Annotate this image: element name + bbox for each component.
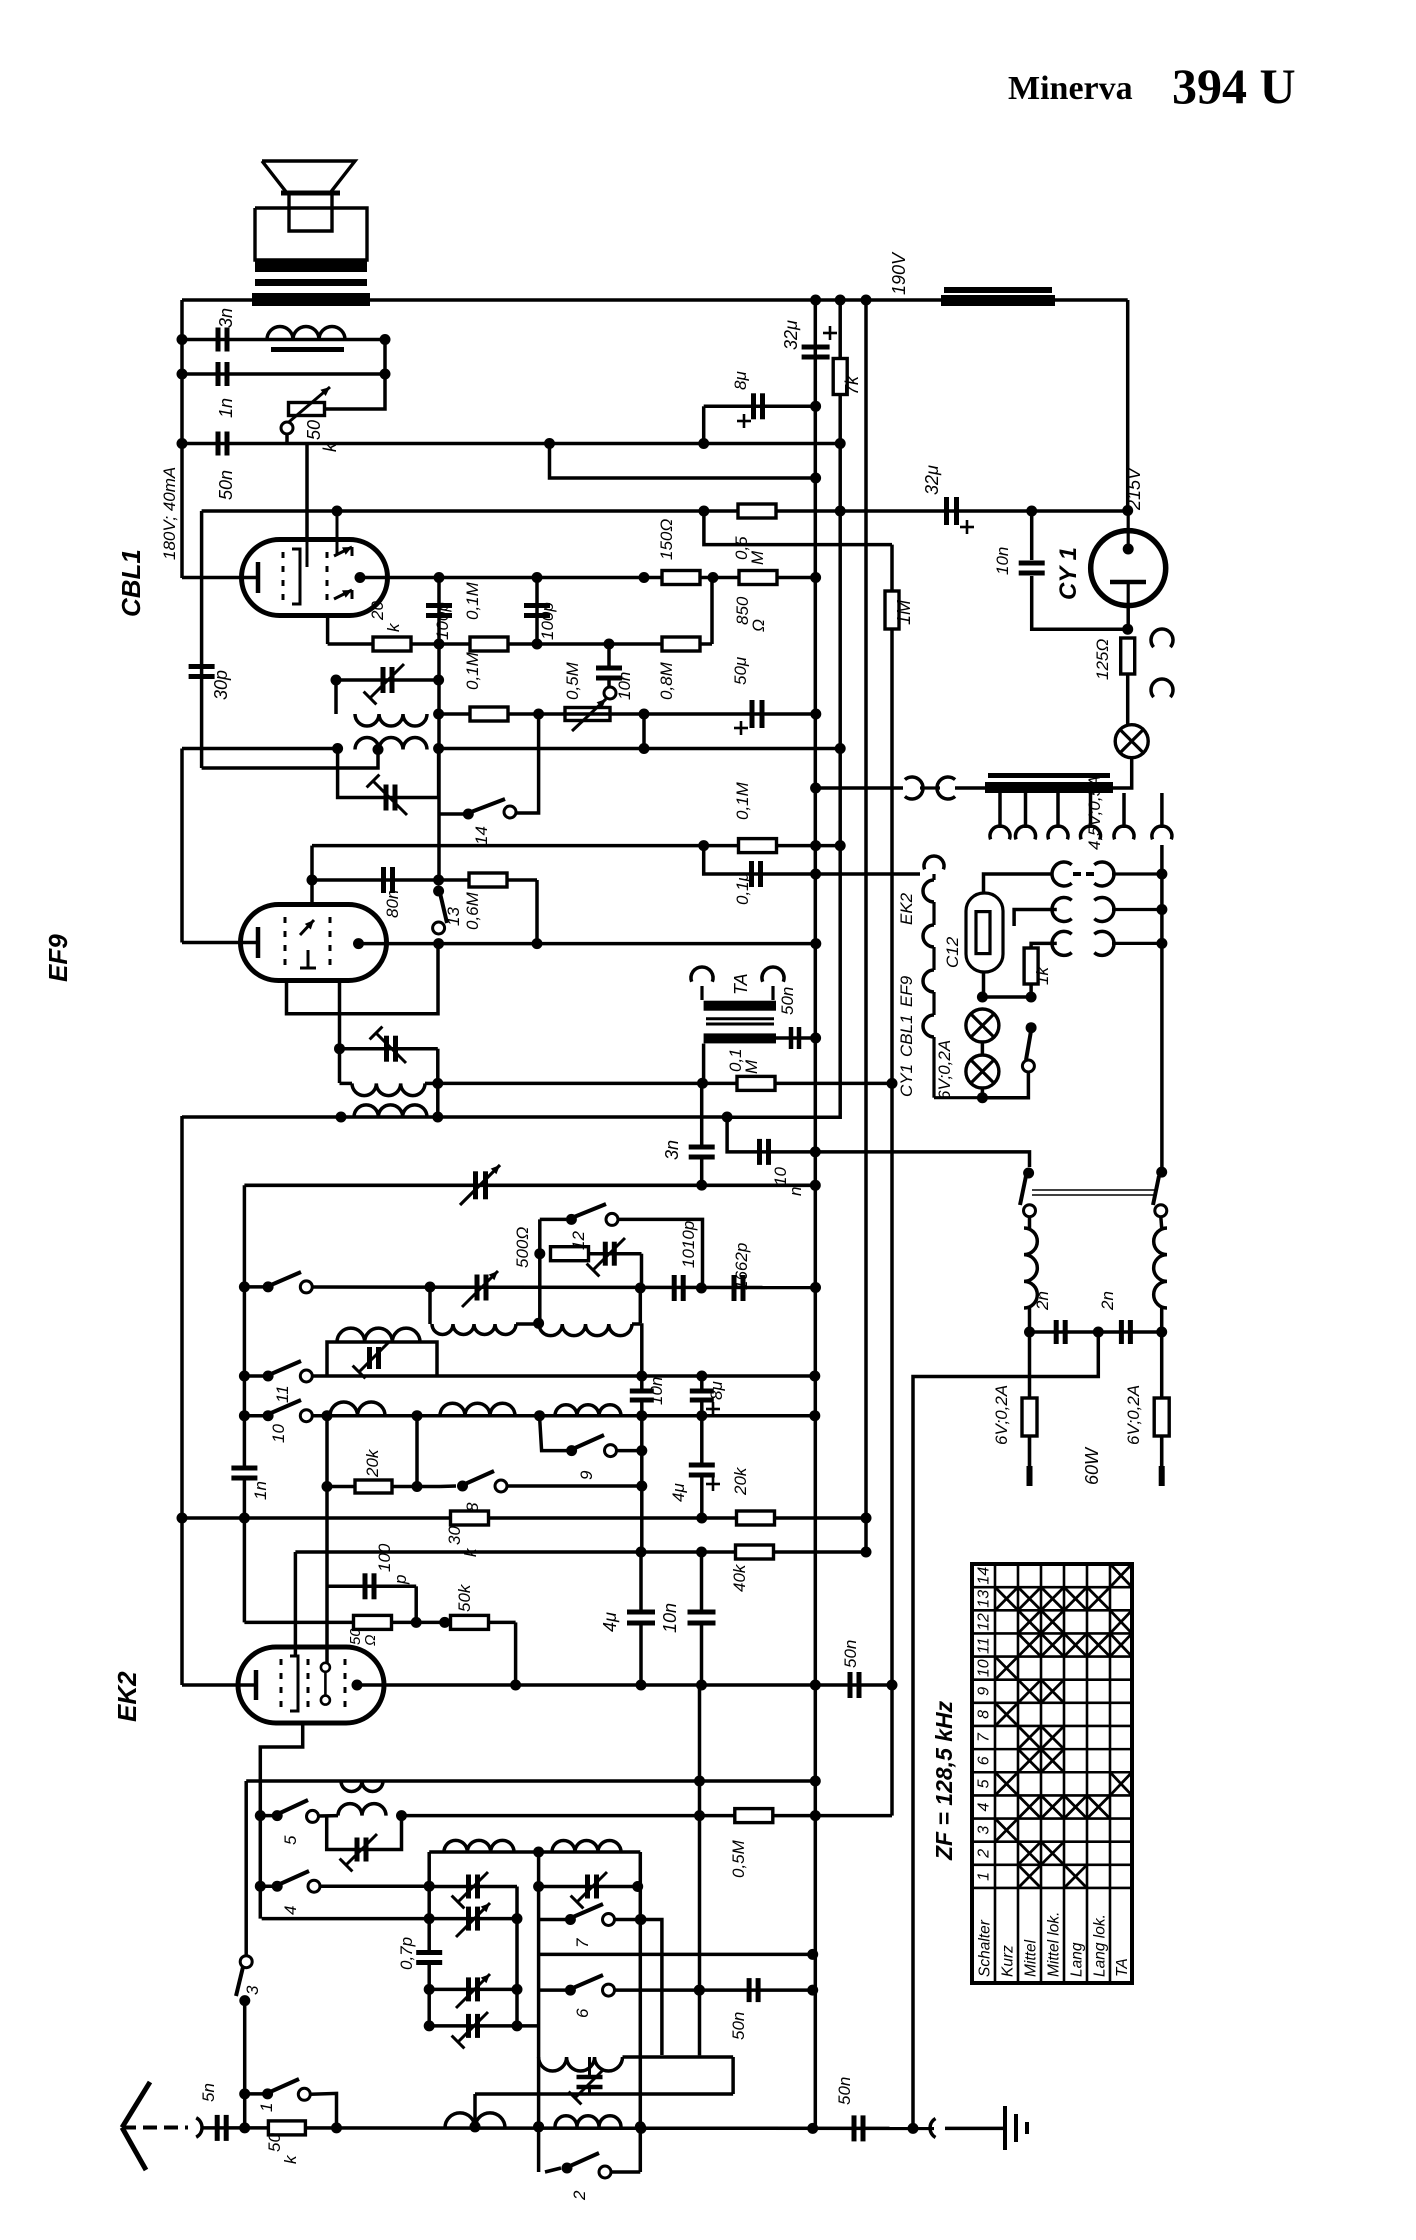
svg-text:215V: 215V: [1124, 466, 1144, 511]
wire C12 grid stub: [1014, 910, 1057, 927]
wire coil D right: [623, 2055, 734, 2059]
svg-text:0,1M: 0,1M: [733, 781, 752, 820]
inductor band coil C: [552, 1841, 621, 1852]
wire bank col 517: [515, 1887, 519, 2026]
svg-text:20k: 20k: [363, 1448, 382, 1478]
wire 3n drop: [700, 1083, 704, 1147]
wire 20k row: [328, 642, 712, 646]
wire 40k row: [295, 1550, 866, 1554]
wire EF9 bottom pin a: [287, 944, 439, 1014]
svg-text:CBL1: CBL1: [897, 1014, 916, 1057]
tube EK2 anode dot: [352, 1680, 363, 1691]
svg-text:1662p: 1662p: [732, 1243, 751, 1290]
tube EK2 interior cathode: [254, 1670, 259, 1700]
resistor 850Ohm: [739, 571, 777, 585]
IF transformer IFT2 primary box: [336, 680, 439, 714]
inductor dropper right: [1159, 1217, 1163, 1228]
svg-text:100p: 100p: [538, 602, 557, 640]
trimmer capacitor T4: [466, 2014, 471, 2038]
capacitor 5n: [215, 2115, 220, 2141]
fuse 6V 0,2A right: [1160, 1332, 1164, 1399]
wire EK2 bottom pin: [260, 1722, 302, 1919]
wire 30p riser: [200, 511, 204, 768]
svg-text:60W: 60W: [1082, 1446, 1102, 1485]
svg-text:1010p: 1010p: [679, 1221, 698, 1268]
svg-text:7: 7: [573, 1938, 592, 1948]
wire bus x840: [727, 300, 840, 1117]
svg-text:EF9: EF9: [43, 934, 73, 982]
svg-text:10: 10: [269, 1424, 288, 1443]
svg-text:1k: 1k: [1033, 966, 1052, 985]
connector hook a: [1151, 629, 1173, 647]
inductor antenna coupling coil: [341, 1781, 383, 1792]
svg-text:2n: 2n: [1098, 1291, 1117, 1311]
inductor IFT2 secondary coil: [355, 738, 427, 750]
wire lamps series: [981, 1042, 985, 1055]
wire rectifier feed row 511: [840, 509, 1127, 513]
wire x246 col: [244, 1781, 248, 1955]
svg-text:10n: 10n: [660, 1603, 680, 1633]
connector dashed plug pair: [1052, 862, 1072, 886]
svg-text:32μ: 32μ: [922, 465, 942, 495]
wire bank row 1852: [429, 1850, 640, 1854]
capacitor 100p b: [524, 603, 550, 608]
tube EK2 interior grids: [280, 1659, 283, 1665]
svg-text:150Ω: 150Ω: [657, 519, 676, 560]
transformer TA secondary: [704, 1033, 776, 1043]
svg-text:4: 4: [976, 1802, 993, 1811]
capacitor 10n rectifier: [1019, 561, 1045, 566]
wire heater feed row: [816, 872, 920, 876]
capacitor 32u second: [944, 497, 949, 525]
svg-text:10n: 10n: [993, 547, 1012, 575]
wire EK2 anode row: [357, 1683, 892, 1687]
connector hook pair mid: [1052, 898, 1072, 922]
svg-text:5n: 5n: [199, 2083, 218, 2102]
resistor 0,5M fixed: [738, 504, 776, 518]
capacitor 4u main: [627, 1610, 655, 1615]
trimmer capacitor T3: [466, 1977, 471, 2001]
capacitor 0,1u: [749, 861, 754, 887]
resistor 0,8M: [662, 637, 700, 651]
tube EF9 interior cathode: [256, 927, 261, 958]
svg-text:6V;0,2A: 6V;0,2A: [992, 1385, 1011, 1445]
capacitor 1662p: [732, 1275, 737, 1301]
wire bus AVC x892: [890, 545, 894, 1816]
antenna hook: [196, 2118, 202, 2137]
svg-text:20k: 20k: [731, 1466, 750, 1496]
svg-text:11: 11: [273, 1385, 292, 1403]
capacitor 50n TA: [789, 1027, 794, 1049]
svg-text:3: 3: [976, 1826, 993, 1835]
transformer TA primary: [704, 1001, 776, 1011]
resistor 150Ohm: [662, 571, 700, 585]
wire switch14 left: [439, 812, 469, 816]
tube CBL1: [242, 540, 388, 616]
switch 9: [540, 1416, 572, 1451]
output transformer T-out secondary winding: [255, 260, 367, 272]
wire 30k row: [182, 1516, 866, 1520]
wire bank col 538: [537, 1852, 541, 2128]
svg-text:8μ: 8μ: [707, 1381, 726, 1400]
IF transformer IFT2 secondary box: [338, 749, 439, 798]
switch scale lamps: [1026, 1022, 1037, 1033]
wire heater row to bank: [815, 1152, 1029, 1167]
svg-text:50n: 50n: [729, 2012, 748, 2040]
capacitor 50n bottom: [852, 2115, 857, 2141]
wire 1k top: [1031, 943, 1057, 948]
resistor 500Ohm: [551, 1247, 589, 1261]
trimmer capacitor osc fb: [603, 1242, 608, 1266]
svg-text:CY1: CY1: [897, 1064, 916, 1097]
svg-text:10: 10: [771, 1167, 790, 1186]
trimmer capacitor T5: [577, 2075, 603, 2080]
svg-text:Kurz: Kurz: [1000, 1945, 1017, 1977]
capacitor 10n osc: [630, 1389, 654, 1394]
wire 10n to wiper: [607, 678, 611, 687]
wire CBL1 bottom pin: [326, 616, 330, 645]
trimmer capacitor T2: [466, 1907, 471, 1931]
switch 1: [262, 2088, 273, 2099]
svg-text:Minerva: Minerva: [1008, 70, 1133, 107]
wire top bus 190V: [182, 298, 1128, 302]
wire TA primary lead: [702, 1044, 706, 1084]
inductor IFT1 primary coil: [352, 1083, 425, 1095]
tube CBL1 interior cathode: [256, 562, 261, 593]
wire CBL1 grid line 0,5M row: [202, 509, 841, 513]
wire switch1 right: [310, 2093, 336, 2128]
svg-text:50n: 50n: [778, 987, 797, 1015]
switch 11: [239, 1371, 250, 1382]
wire osc row 1288: [313, 1285, 816, 1289]
inductor band coil 5: [338, 1804, 386, 1816]
table X marks: [1111, 1565, 1131, 1586]
capacitor 50n b: [747, 1978, 752, 2002]
resistor 50k osc: [451, 1615, 489, 1629]
inductor IFT2 primary coil: [355, 714, 427, 726]
wire coil C right side: [639, 1852, 643, 1887]
wire col 475: [473, 2094, 477, 2127]
svg-text:500Ω: 500Ω: [513, 1227, 532, 1268]
svg-text:0,5M: 0,5M: [729, 1839, 748, 1878]
tube CBL1 cathode wire: [182, 576, 258, 580]
wire row10 line: [313, 1414, 815, 1418]
tube EF9: [241, 905, 387, 981]
tube EK2 grid terminals: [321, 1663, 330, 1672]
wire pot feed: [324, 340, 385, 410]
capacitor 4u second: [689, 1463, 715, 1468]
wire CY1 cathode down: [1126, 606, 1130, 630]
svg-text:M: M: [748, 550, 767, 565]
wire antenna coil row 1781: [246, 1779, 815, 1783]
pickup jack TA: [691, 967, 713, 982]
wire to ground: [945, 2127, 1003, 2131]
svg-text:12: 12: [569, 1231, 588, 1250]
resistor 7k: [833, 359, 847, 395]
connector hook pair low: [1052, 931, 1072, 955]
capacitor 2n b: [1119, 1320, 1124, 1344]
svg-text:7: 7: [976, 1732, 993, 1742]
svg-text:6: 6: [976, 1756, 993, 1765]
switch 8: [457, 1481, 468, 1492]
svg-text:p: p: [391, 1575, 410, 1585]
svg-text:2n: 2n: [1033, 1291, 1052, 1311]
svg-text:50n: 50n: [841, 1640, 860, 1668]
svg-text:TA: TA: [731, 973, 751, 995]
inductor band coil D: [539, 2057, 623, 2071]
tube CBL1 grid pin wires: [306, 541, 309, 567]
switch 5: [255, 1810, 266, 1821]
svg-text:n: n: [786, 1187, 805, 1196]
wire x641 lower: [639, 1887, 643, 2129]
svg-text:2: 2: [570, 2190, 589, 2201]
capacitor 30p: [189, 664, 215, 669]
resistor 0,1M b: [470, 707, 508, 721]
ground symbol: [1003, 2106, 1007, 2150]
svg-text:0,8M: 0,8M: [657, 661, 676, 700]
switch 4: [255, 1881, 266, 1892]
wire bank row 1886 a: [429, 1885, 517, 1889]
inductor osc tracking coil: [440, 1403, 515, 1416]
svg-text:6V;0,2A: 6V;0,2A: [1124, 1385, 1143, 1445]
capacitor 2n a: [1054, 1320, 1059, 1344]
svg-text:40k: 40k: [730, 1563, 749, 1592]
wire row 748 right: [439, 747, 841, 751]
switch 3: [240, 1956, 252, 1968]
wire switch7 right: [615, 1918, 641, 1922]
svg-text:1n: 1n: [251, 1481, 270, 1500]
resistor 20k CBL1: [373, 637, 411, 651]
capacitor 0,7p: [416, 1950, 442, 1955]
wire 30p to IFT2 tap: [202, 750, 378, 768]
switch gang link: [1032, 1189, 1155, 1191]
svg-text:10: 10: [976, 1659, 993, 1677]
wire 2n middle drop: [913, 1332, 1098, 2128]
wire sw12 right: [618, 1219, 703, 1288]
wire lamps top row: [982, 995, 1031, 999]
wire 50k drop: [514, 1622, 518, 1685]
connector hook b: [1151, 679, 1173, 697]
wire 10n drop 1152: [727, 1117, 815, 1152]
wire row 3n: [182, 338, 385, 342]
svg-text:20: 20: [368, 601, 387, 621]
trimmer capacitor T1: [466, 1875, 471, 1899]
capacitor 1n: [216, 362, 221, 386]
capacitor 100p EK2: [363, 1573, 368, 1599]
wire 0,8M riser: [710, 578, 714, 645]
svg-text:4μ: 4μ: [669, 1483, 688, 1502]
capacitor 80n: [381, 867, 386, 893]
svg-text:Lang lok.: Lang lok.: [1092, 1914, 1109, 1977]
resistor 0,6M: [469, 873, 507, 887]
connector plug pair mains: [937, 777, 955, 799]
wire row 1989 T3: [429, 1988, 517, 1992]
svg-text:EK2: EK2: [112, 1671, 142, 1722]
wire switch6 right: [615, 1988, 813, 1992]
resistor 0,1M AF: [737, 1076, 775, 1090]
wire 10n rect branch: [1030, 511, 1034, 560]
svg-text:50k: 50k: [455, 1583, 474, 1612]
capacitor 3n af: [689, 1145, 715, 1150]
svg-text:1M: 1M: [894, 600, 914, 625]
svg-text:30: 30: [445, 1526, 464, 1545]
svg-text:80n: 80n: [383, 890, 402, 918]
table switch grid frame: [972, 1564, 1132, 1983]
wire AF line 1083: [438, 1082, 892, 1086]
tube EF9 cathode wire: [182, 941, 258, 945]
antenna lead dashes: [122, 2126, 188, 2130]
wire bus x814.5: [814, 300, 818, 2128]
capacitor 50n anode: [848, 1672, 853, 1698]
svg-text:ZF = 128,5 kHz: ZF = 128,5 kHz: [931, 1700, 957, 1861]
svg-text:4: 4: [281, 1906, 300, 1915]
switch mains left: [1023, 1168, 1034, 1179]
svg-text:50n: 50n: [216, 470, 236, 500]
svg-text:Ω: Ω: [362, 1635, 379, 1646]
svg-text:0,1M: 0,1M: [463, 581, 482, 620]
wire AVC corner: [704, 511, 892, 545]
wire 8u row: [704, 405, 816, 409]
wire left bus EK2 segment: [180, 1116, 184, 1685]
wire 500 row: [587, 1252, 642, 1256]
wire plug to bus: [816, 786, 903, 790]
svg-text:8: 8: [976, 1710, 993, 1719]
resistor 50k antenna: [268, 2121, 305, 2135]
wire 1k bottom: [1029, 984, 1033, 997]
trimmer capacitor band 11: [367, 1347, 372, 1369]
svg-text:CY 1: CY 1: [1055, 547, 1082, 600]
svg-text:394 U: 394 U: [1172, 58, 1296, 114]
svg-text:6V;0,2A: 6V;0,2A: [935, 1040, 954, 1100]
heater transformer winding: [988, 773, 1110, 778]
wire 8u drop: [702, 406, 706, 443]
svg-text:190V: 190V: [889, 251, 909, 295]
inductor IFT1 secondary coil: [354, 1105, 427, 1117]
wire 20k row 1486: [327, 1485, 440, 1489]
capacitor 1010p: [672, 1275, 677, 1301]
svg-text:0,1M: 0,1M: [463, 651, 482, 690]
wire lamp to transformer: [985, 758, 1132, 788]
wire left bus upper: [180, 300, 184, 578]
switch 12: [540, 1218, 566, 1222]
svg-text:30p: 30p: [211, 670, 231, 700]
svg-text:9: 9: [976, 1687, 993, 1696]
wire EK2 grid col b: [325, 1416, 329, 1663]
capacitor 1n band: [231, 1466, 257, 1471]
resistor 0,1M screen: [739, 839, 777, 853]
wire coil5 row: [319, 1814, 339, 1818]
resistor 0,1M a: [470, 637, 508, 651]
wire 50ohm row: [244, 1621, 515, 1625]
trimmer capacitor band5: [355, 1838, 360, 1862]
wire EF9 anode row: [359, 942, 816, 946]
svg-text:14: 14: [976, 1567, 993, 1585]
wire 10n stubs: [700, 1552, 704, 1610]
svg-text:8μ: 8μ: [731, 371, 750, 390]
wire screen feed 478: [550, 444, 816, 479]
wire row 1n: [182, 372, 385, 376]
wire IFT1 right side: [436, 1049, 440, 1117]
svg-text:0,6M: 0,6M: [463, 891, 482, 930]
wire 10n drop: [607, 644, 611, 668]
svg-text:9: 9: [577, 1470, 596, 1480]
switch 2 box: [537, 2127, 541, 2172]
resistor 20k coil: [355, 1480, 392, 1493]
wire switch4 row: [320, 1884, 429, 1888]
antenna symbol: [122, 2082, 150, 2128]
wire right heater bus: [1160, 845, 1164, 1172]
glow lamp C12: [966, 893, 1003, 972]
capacitor 50n tone: [216, 432, 221, 456]
svg-text:C12: C12: [943, 936, 962, 968]
wire row 2094: [475, 2092, 733, 2096]
svg-text:1: 1: [257, 2103, 276, 2112]
wire row 1919 left: [262, 1917, 517, 1921]
wire x439 long: [437, 714, 441, 880]
wire EK2 grid col a: [294, 1552, 298, 1656]
capacitor 3n: [216, 328, 221, 352]
band coil 5 box: [327, 1816, 402, 1850]
svg-text:CBL1: CBL1: [116, 549, 146, 617]
wire pot wiper drop: [285, 434, 289, 444]
svg-text:5: 5: [976, 1779, 993, 1788]
wire 0,1u jog: [704, 846, 816, 874]
svg-text:10n: 10n: [647, 1377, 666, 1405]
transformer TA core: [706, 1017, 774, 1020]
wire x644 link: [642, 714, 646, 749]
wire osc tap riser: [538, 1219, 542, 1323]
svg-text:32μ: 32μ: [781, 320, 801, 350]
svg-text:EK2: EK2: [897, 892, 916, 925]
switch 10: [239, 1410, 250, 1421]
svg-text:TA: TA: [1114, 1958, 1131, 1977]
svg-text:11: 11: [976, 1637, 993, 1654]
wire RF line 1185: [244, 1184, 815, 1188]
inductor osc coil: [428, 1287, 432, 1324]
switch band osc: [239, 1281, 250, 1292]
wire EK2 cathode: [182, 1683, 256, 1687]
svg-text:50: 50: [265, 2133, 284, 2152]
node top bus junctions: [810, 295, 821, 306]
wire left bus lower: [180, 749, 184, 943]
svg-text:7k: 7k: [842, 375, 862, 395]
svg-text:50: 50: [304, 420, 324, 440]
ground hook: [930, 2119, 935, 2138]
svg-text:4μ: 4μ: [600, 1612, 620, 1632]
wire 2n row: [1030, 1330, 1162, 1334]
wire x641 mid: [640, 1323, 644, 1391]
resistor 0,5M af: [735, 1809, 773, 1823]
wire 0,6M drop: [535, 880, 539, 944]
lamp scale 6V b: [966, 1055, 999, 1088]
tube CBL1 interior grid dashes: [282, 552, 285, 558]
wire row11 line: [313, 1374, 815, 1378]
switch 6: [565, 1985, 576, 1996]
svg-text:10n: 10n: [615, 672, 634, 700]
capacitor 10n main: [688, 1610, 716, 1615]
wire 05M row: [402, 1814, 893, 1818]
svg-text:2: 2: [976, 1849, 993, 1859]
wire row 2026: [429, 2024, 538, 2028]
capacitor 32u first: [802, 345, 830, 350]
wire bus x866: [864, 300, 868, 1552]
wire x699 col: [698, 1685, 702, 2055]
wire plug to C12: [984, 874, 1053, 893]
lamp scale 6V a: [966, 1009, 999, 1042]
svg-text:13: 13: [444, 907, 463, 926]
wire choke to 215V: [1126, 300, 1130, 511]
wire EF9 grid top row: [310, 846, 314, 905]
